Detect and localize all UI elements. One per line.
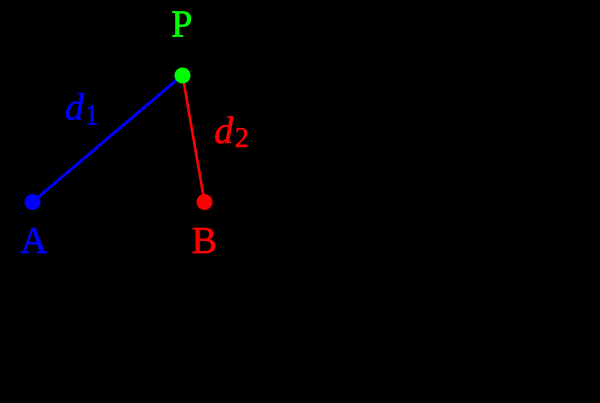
svg-text:d: d	[214, 110, 234, 152]
svg-text:A: A	[20, 220, 48, 262]
svg-text:2: 2	[235, 123, 249, 154]
svg-text:1: 1	[85, 101, 99, 132]
svg-text:P: P	[171, 4, 192, 46]
svg-text:B: B	[192, 220, 217, 262]
svg-text:d: d	[65, 87, 85, 129]
